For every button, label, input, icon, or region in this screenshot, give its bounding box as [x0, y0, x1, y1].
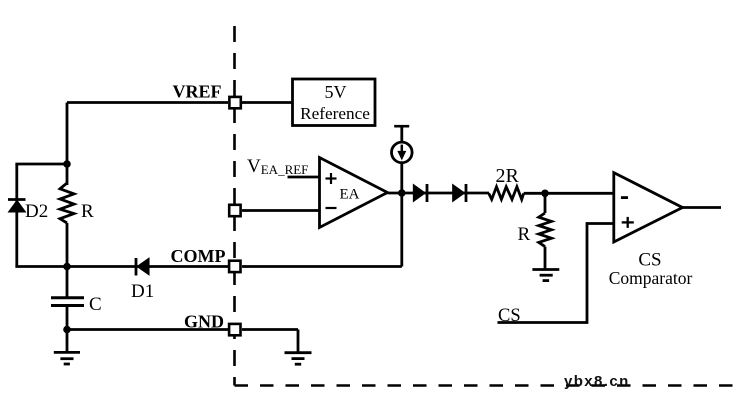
- wire left main vertical (VREF down to node): [66, 103, 69, 186]
- wire EA output node down to COMP line: [400, 193, 403, 267]
- node cap-bottom junction: [63, 326, 71, 334]
- wire D2 branch vertical: [15, 164, 18, 267]
- svg-text:R: R: [518, 224, 531, 245]
- node top-left junction: [63, 160, 71, 168]
- capacitor C1: [51, 298, 84, 306]
- EA minus sign: [326, 207, 337, 209]
- svg-text:C: C: [89, 294, 102, 315]
- svg-text:Reference: Reference: [300, 104, 370, 123]
- svg-text:5V: 5V: [325, 82, 347, 102]
- diode D2: [8, 200, 26, 212]
- 5V Reference box U2: [293, 79, 376, 126]
- svg-text:COMP: COMP: [171, 246, 226, 266]
- wire current source top stub: [400, 126, 403, 142]
- wire COMP pad to vertical: [242, 265, 402, 268]
- wire ground stub left: [66, 330, 69, 353]
- current source I1 top bar: [394, 125, 409, 128]
- op-amp EA U1: [320, 158, 388, 228]
- diode D3: [414, 184, 427, 202]
- wire node to R2: [544, 193, 547, 213]
- diode D1: [136, 258, 149, 276]
- node EA output junction: [398, 189, 406, 197]
- comparator plus sign: [622, 217, 634, 228]
- wire cap bottom connection: [66, 306, 69, 330]
- chip boundary dashed vertical line: [233, 26, 236, 386]
- current source I1: [392, 142, 413, 163]
- pin pad GND: [229, 324, 240, 335]
- diode D4: [453, 184, 466, 202]
- wire EA output: [388, 192, 490, 195]
- svg-text:ybx8.cn: ybx8.cn: [564, 373, 630, 390]
- chip boundary dashed horizontal line: [235, 384, 742, 386]
- pin pad VREF: [229, 97, 240, 108]
- svg-text:VREF: VREF: [173, 82, 222, 102]
- wire VREF horizontal: [67, 101, 228, 104]
- wire VEA_REF to EA + input: [288, 176, 320, 179]
- wire cap top connection: [66, 267, 69, 298]
- svg-text:Comparator: Comparator: [609, 268, 693, 288]
- wire EA - input from pad: [242, 209, 320, 212]
- pin pad EA minus: [229, 205, 240, 216]
- svg-text:CS: CS: [498, 306, 521, 326]
- ground left: [54, 352, 80, 364]
- resistor R1 left zigzag: [60, 183, 74, 223]
- wire current source to output node: [400, 163, 403, 193]
- node divider junction: [541, 190, 549, 198]
- wire GND line left section: [67, 328, 228, 331]
- ground right: [532, 270, 559, 281]
- wire comparator output: [683, 206, 722, 209]
- ground middle: [285, 353, 312, 365]
- EA plus sign: [326, 173, 337, 184]
- comparator minus sign: [621, 196, 628, 199]
- wire below R to COMP line: [66, 223, 69, 267]
- svg-text:D1: D1: [131, 281, 154, 302]
- pin pad COMP: [229, 261, 240, 272]
- svg-text:2R: 2R: [496, 165, 520, 187]
- wire VREF pad to 5V Reference box: [242, 101, 293, 104]
- svg-text:R: R: [81, 201, 94, 222]
- wire 2R to comparator minus input: [524, 192, 614, 195]
- wire GND pad to middle ground: [242, 328, 298, 331]
- wire ground stub middle: [297, 330, 300, 353]
- wire R2 to ground: [544, 247, 547, 270]
- svg-text:GND: GND: [184, 312, 224, 332]
- svg-text:D2: D2: [25, 201, 48, 222]
- comparator U3 CS Comparator: [614, 173, 683, 242]
- node COMP-left junction: [63, 263, 71, 271]
- resistor R2 zigzag: [539, 213, 552, 247]
- wire comparator plus input: [498, 224, 614, 323]
- resistor 2R zigzag: [489, 187, 524, 200]
- wire top of D2 branch: [15, 163, 67, 166]
- wire COMP line left section: [15, 265, 228, 268]
- svg-text:EA: EA: [340, 187, 360, 203]
